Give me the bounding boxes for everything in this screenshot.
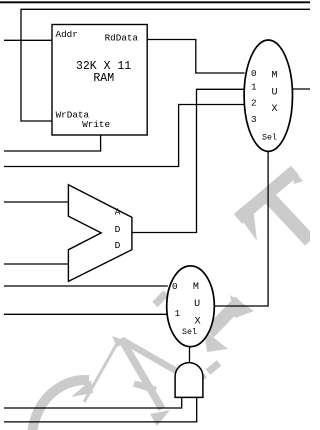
wire MUX U3 input 0	[4, 285, 168, 287]
svg-text:RdData: RdData	[105, 33, 139, 44]
wire left net to MUX U2 input 2	[4, 105, 245, 167]
adder ADD1	[68, 185, 131, 282]
svg-text:M: M	[193, 282, 199, 293]
svg-text:Write: Write	[82, 119, 110, 130]
svg-text:U: U	[194, 299, 200, 310]
svg-text:Sel: Sel	[182, 327, 197, 337]
wire Addr input	[4, 39, 52, 41]
wire top bus	[0, 1, 310, 3]
svg-text:A: A	[115, 207, 121, 218]
svg-text:X: X	[272, 104, 278, 115]
svg-text:Sel: Sel	[262, 133, 277, 143]
svg-text:Addr: Addr	[56, 29, 78, 40]
svg-text:D: D	[115, 240, 121, 251]
svg-text:X: X	[195, 316, 201, 327]
wire Write net: RAM bottom to left edge	[4, 135, 101, 151]
wire ADD input B	[4, 263, 69, 265]
svg-text:U: U	[272, 88, 278, 99]
watermark fragment band right of A (gray)	[124, 341, 178, 372]
svg-text:3: 3	[251, 114, 257, 125]
wire RdData to MUX U2 input 0	[147, 40, 244, 74]
mux U2 (4-input MUX)	[244, 40, 292, 151]
svg-text:D: D	[115, 224, 121, 235]
svg-text:32K X 11: 32K X 11	[76, 60, 131, 73]
watermark fragment letter A (gray)	[84, 336, 170, 426]
svg-text:0: 0	[251, 68, 257, 79]
svg-text:1: 1	[175, 308, 181, 319]
wire MUX U3 input 1	[4, 313, 168, 315]
watermark fragment arc (gray)	[32, 380, 93, 430]
wire WrData net: from right edge down left side into RAM WrData	[21, 9, 310, 121]
svg-text:RAM: RAM	[93, 72, 114, 85]
svg-text:M: M	[272, 71, 278, 82]
RAM U1 32K x 11	[52, 25, 147, 136]
svg-text:0: 0	[172, 281, 178, 292]
watermark fragment letter A2 (gray)	[197, 295, 254, 382]
wire ADD input A	[4, 201, 69, 203]
wire AND G1 input b	[4, 397, 197, 422]
watermark fragment letter T (gray)	[236, 168, 310, 241]
wire AND G1 output to MUX U3 Sel	[189, 347, 191, 363]
svg-text:2: 2	[251, 98, 257, 109]
and gate G1	[175, 363, 203, 398]
svg-text:1: 1	[251, 82, 257, 93]
wire MUX U3 output to MUX U2 Sel	[214, 152, 268, 307]
wire MUX U2 output to right edge	[293, 88, 311, 90]
watermark fragment small diagonal stroke (gray)	[155, 293, 166, 305]
wire ADD output to MUX U2 input 1	[132, 89, 245, 232]
wire AND G1 input a	[4, 397, 182, 408]
mux U3 (2-input MUX)	[167, 266, 215, 347]
